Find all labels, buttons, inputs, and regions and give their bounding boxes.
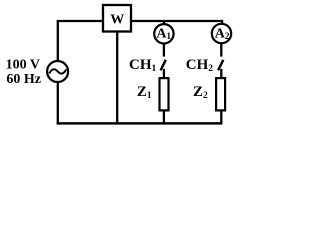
ammeter A2: [212, 24, 231, 43]
switch CH2 blade: [218, 60, 223, 71]
wire bottom rail: [57, 122, 223, 125]
wire ammeter A2 to switch CH2: [220, 43, 222, 56]
impedance Z2 box: [216, 78, 225, 110]
wire ammeter A1 to switch CH1: [163, 43, 165, 56]
ac source V1: [47, 61, 68, 82]
wattmeter U1 box: [103, 5, 131, 32]
svg-text:60 Hz: 60 Hz: [6, 72, 41, 87]
wire switch CH1 to impedance Z1: [163, 69, 165, 79]
svg-text:100 V: 100 V: [6, 58, 40, 73]
switch CH1 blade: [161, 60, 166, 71]
ammeter A1: [154, 24, 173, 43]
wire source bottom to bottom rail: [57, 82, 59, 123]
wire wattmeter bottom to bottom rail: [116, 32, 118, 124]
wire top-right from wattmeter to branch 2: [131, 21, 222, 25]
impedance Z1 box: [160, 78, 169, 110]
wire stub node to ammeter A1: [163, 21, 165, 25]
svg-text:W: W: [110, 13, 124, 28]
wire switch CH2 to impedance Z2: [220, 69, 222, 79]
label source value 100 V / 60 Hz: [6, 58, 41, 87]
wire impedance Z1 to bottom rail: [163, 110, 165, 123]
wire top-left from source to wattmeter: [58, 21, 104, 61]
wire impedance Z2 to bottom rail: [220, 110, 222, 124]
